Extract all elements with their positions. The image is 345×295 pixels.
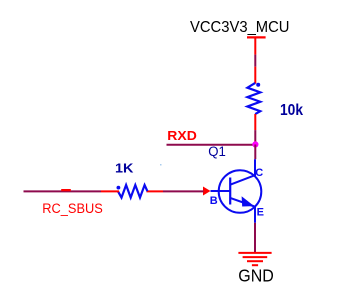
junction dot <box>252 141 258 147</box>
red tick on left wire <box>61 189 71 191</box>
transistor Q1 emitter diagonal <box>230 198 254 207</box>
svg-text:Q1: Q1 <box>208 144 226 159</box>
resistor R2 1K <box>118 185 147 198</box>
transistor Q1 collector pin <box>254 159 256 176</box>
svg-text:B: B <box>210 195 218 207</box>
svg-text:VCC3V3_MCU: VCC3V3_MCU <box>190 19 290 36</box>
svg-text:E: E <box>257 206 264 218</box>
wire below resistor red segment <box>254 114 256 130</box>
ground bar 1 <box>238 252 271 254</box>
transistor Q1 body circle <box>219 170 262 213</box>
wire RXD horizontal <box>167 144 256 146</box>
transistor Q1 emitter pin <box>254 207 256 223</box>
wire power vertical maroon segment <box>254 55 256 67</box>
grid dot <box>160 164 162 166</box>
ground bar 4 <box>252 264 258 266</box>
ground bar 3 <box>247 260 263 262</box>
svg-text:RXD: RXD <box>167 129 197 143</box>
power port bar VCC3V3_MCU <box>247 36 266 38</box>
svg-text:1K: 1K <box>115 160 134 175</box>
wire power vertical red segment 1 <box>254 37 256 54</box>
transistor Q1 collector diagonal <box>230 175 255 185</box>
pin-1 dot of resistor 1K <box>117 186 121 190</box>
wire red segment left of resistor <box>101 190 119 192</box>
wire base maroon segment left <box>24 190 102 192</box>
ground bar 2 <box>243 256 268 258</box>
svg-text:GND: GND <box>238 266 273 286</box>
wire arrow into base (red arrowhead) <box>203 187 211 196</box>
resistor R1 10k <box>247 83 260 114</box>
wire power vertical red segment 2 <box>254 67 256 84</box>
wire base maroon segment right <box>163 190 204 192</box>
wire base red segment after resistor <box>147 190 164 192</box>
transistor Q1 base pin <box>211 190 231 192</box>
svg-text:RC_SBUS: RC_SBUS <box>42 201 103 216</box>
svg-text:10k: 10k <box>280 102 303 119</box>
wire junction to collector maroon segment <box>254 145 256 160</box>
pin-1 dot of resistor 10k <box>256 83 260 87</box>
wire emitter to ground maroon segment <box>254 223 256 253</box>
wire to junction maroon segment <box>254 130 256 144</box>
transistor Q1 emitter arrow <box>242 196 255 206</box>
transistor Q1 base bar <box>229 178 231 205</box>
